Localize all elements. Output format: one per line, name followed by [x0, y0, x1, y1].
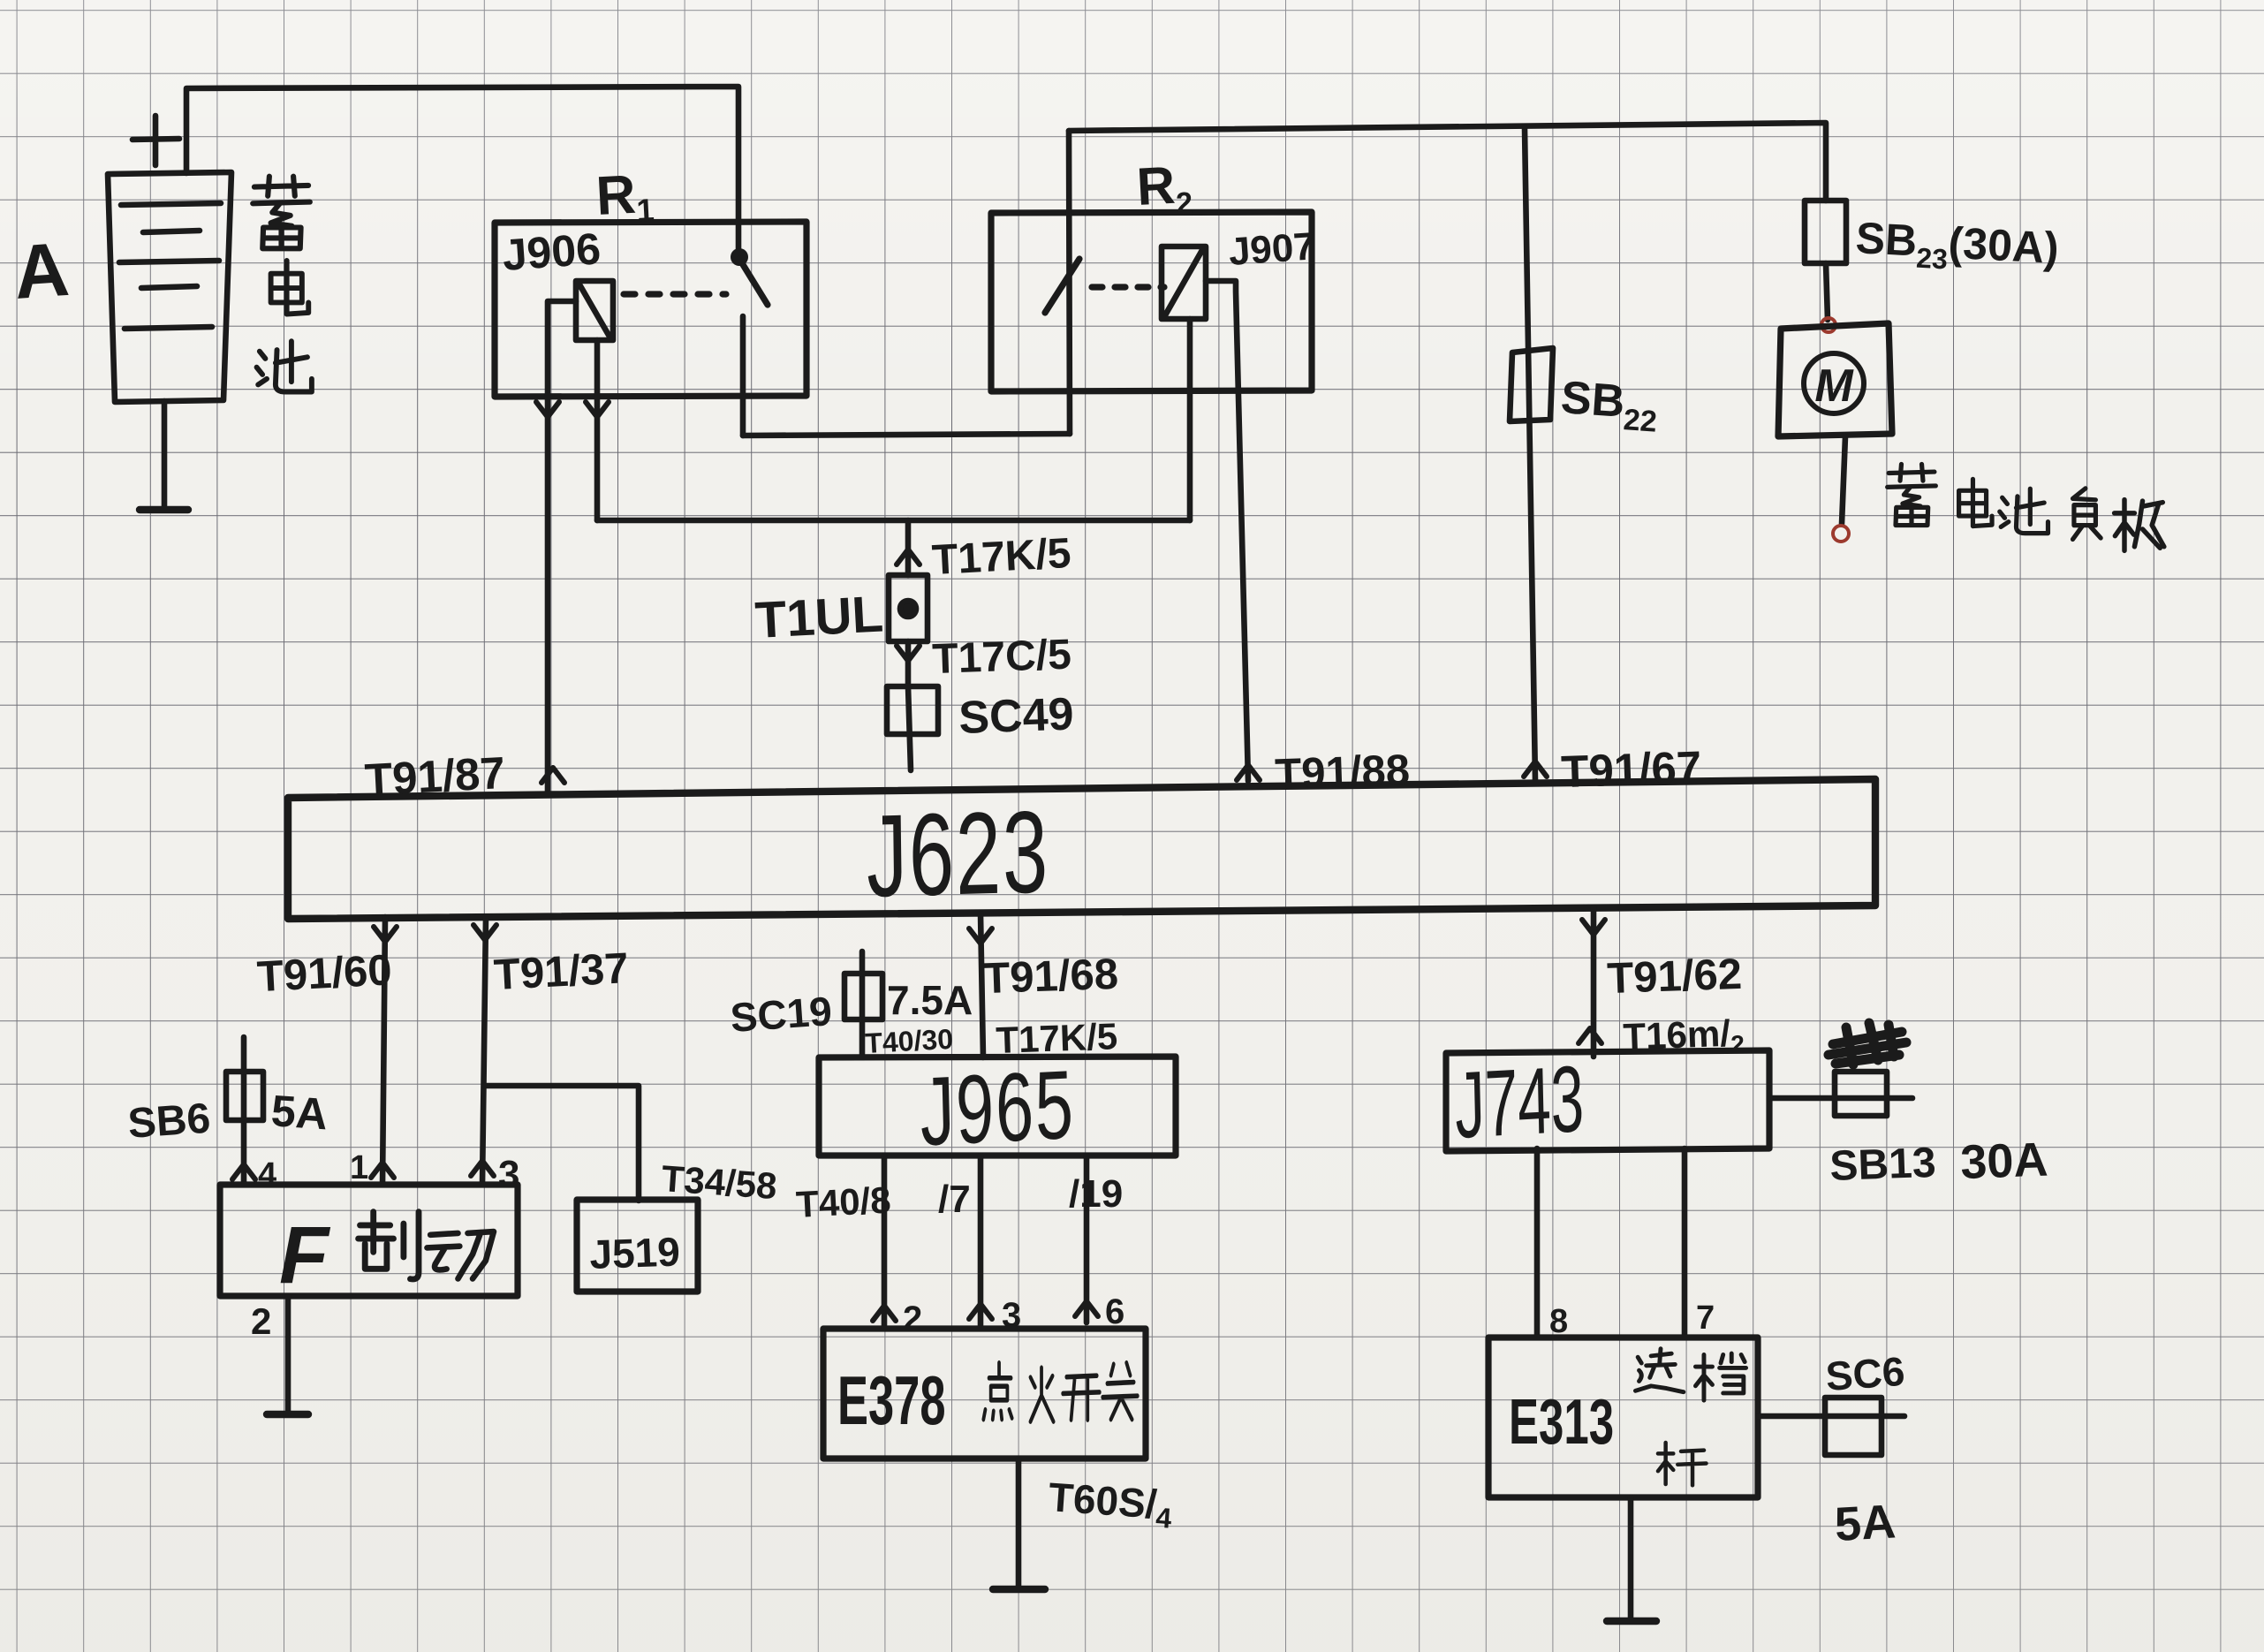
label T91/37: [493, 944, 630, 999]
relay J519 box: [577, 1200, 698, 1292]
svg-text:2: 2: [903, 1300, 922, 1338]
arrow up F pin4: [232, 1164, 255, 1179]
label R2: [1135, 155, 1193, 223]
svg-text:30A: 30A: [1959, 1133, 2048, 1189]
pin label 2 E378: [903, 1300, 922, 1338]
arrow up at T91/88: [1237, 765, 1260, 780]
control unit J743 box: [1446, 1050, 1769, 1151]
wire J965 T40/8 to E378 pin2: [882, 1156, 888, 1327]
label 蓄电池负极 battery negative: [1888, 464, 2164, 550]
label T91/62: [1607, 951, 1743, 1003]
label SC6: [1824, 1348, 1906, 1399]
label F 制动: [279, 1210, 494, 1300]
ground E378: [993, 1586, 1045, 1593]
wire R2 coil bottom to rail: [1187, 319, 1193, 520]
wire J965 /19 to E378 pin6: [1084, 1156, 1090, 1322]
brake switch F box: [220, 1185, 518, 1296]
pin label 1: [350, 1149, 368, 1186]
svg-text:T17K/5: T17K/5: [931, 530, 1072, 584]
label SC49: [958, 688, 1074, 744]
wire R1 coil terminal to J623 T91/87: [548, 301, 576, 794]
label J907: [1227, 224, 1316, 274]
svg-text:T91/87: T91/87: [364, 747, 507, 805]
label /7: [938, 1178, 971, 1221]
label J965: [919, 1050, 1076, 1166]
svg-text:J907: J907: [1227, 224, 1316, 274]
svg-text:T91/60: T91/60: [256, 946, 393, 1001]
svg-text:J965: J965: [919, 1050, 1076, 1166]
wire junction down to T1UL: [905, 520, 912, 575]
label E378 点火开关: [837, 1363, 1138, 1440]
label 5A E313: [1833, 1495, 1897, 1551]
svg-text:7.5A: 7.5A: [887, 977, 973, 1023]
ground E313: [1607, 1618, 1656, 1625]
wire motor to battery negative: [1842, 436, 1845, 524]
arrow down at T17C/5: [897, 646, 920, 661]
wire E378 to ground: [1016, 1459, 1022, 1587]
label /19: [1069, 1172, 1123, 1216]
label SB22: [1558, 372, 1660, 439]
wire J965 /7 to E378 pin3: [978, 1156, 984, 1325]
relay R1 coil-switch dashed link: [624, 291, 726, 297]
battery label 蓄电池 vertical: [253, 177, 312, 392]
arrow up E378 pin3: [969, 1304, 992, 1319]
label R1: [594, 163, 655, 231]
svg-text:SC19: SC19: [729, 988, 833, 1041]
arrow up E378 pin6: [1075, 1301, 1098, 1316]
selector lever E313 box: [1488, 1338, 1758, 1497]
label T16m/2: [1623, 1012, 1745, 1062]
svg-text:SB13: SB13: [1829, 1140, 1937, 1190]
wire R1-R2 switch link: [743, 434, 1070, 436]
arrow up E378 pin2: [873, 1306, 896, 1321]
wire top rail 2: [1069, 123, 1826, 201]
relay R2 coil-switch dashed link: [1092, 284, 1164, 290]
node dot red bottom: [1833, 526, 1849, 542]
pin label 8: [1549, 1303, 1568, 1340]
wire R2 coil right to J623 T91/88: [1206, 281, 1248, 781]
label J743: [1454, 1045, 1585, 1158]
svg-text:/19: /19: [1069, 1172, 1123, 1216]
wire T91/62 to J743: [1591, 907, 1597, 1057]
wire SB6 to F pin4: [241, 1037, 247, 1185]
svg-text:E313: E313: [1509, 1388, 1614, 1459]
ground F: [267, 1411, 308, 1418]
label T91/60: [256, 946, 393, 1001]
ground battery: [140, 506, 188, 513]
relay R2 switch blade: [1045, 259, 1079, 313]
svg-text:J623: J623: [866, 787, 1050, 922]
label SB6: [126, 1095, 212, 1148]
svg-text:/7: /7: [938, 1178, 971, 1221]
label T91/87: [364, 747, 507, 805]
label E313 选档杆: [1509, 1349, 1746, 1486]
arrow up F pin1: [371, 1163, 394, 1178]
arrow down T91/60: [374, 927, 397, 942]
wire R1 switch to common rail: [740, 316, 746, 436]
label 7.5A: [887, 977, 973, 1023]
svg-text:SB6: SB6: [126, 1095, 212, 1148]
wire J743 pin8 to E313: [1534, 1148, 1541, 1338]
svg-text:1: 1: [350, 1149, 368, 1186]
arrow up T16m/2: [1579, 1028, 1601, 1043]
label T40/30: [864, 1023, 953, 1059]
svg-text:T91/68: T91/68: [983, 951, 1119, 1003]
svg-text:T91/37: T91/37: [493, 944, 630, 999]
fuse SC49: [887, 686, 938, 734]
label J519: [589, 1228, 681, 1277]
wire T1UL to SC49: [905, 641, 912, 686]
wire T91/60 to brake switch F pin1: [382, 917, 385, 1185]
arrow up F pin3: [471, 1161, 494, 1176]
wire top rail into R2 switch: [1069, 131, 1070, 434]
svg-text:T91/67: T91/67: [1560, 742, 1702, 798]
label T40/8: [795, 1178, 892, 1225]
arrow down below R1 right: [586, 402, 609, 417]
label J906: [501, 224, 602, 280]
label T91/68: [983, 951, 1119, 1003]
fuse SC6: [1825, 1398, 1882, 1455]
control unit J965 box: [819, 1057, 1176, 1156]
relay R1 switch blade: [739, 259, 768, 305]
fuse SB6: [226, 1072, 263, 1120]
svg-text:M: M: [1814, 360, 1854, 412]
ECU J623 box: [288, 779, 1875, 919]
wire T91/68 to J965: [981, 913, 983, 1057]
wire J743 to SB13: [1769, 1095, 1912, 1102]
svg-text:T40/30: T40/30: [864, 1023, 953, 1059]
arrow down below R1 left: [536, 402, 559, 417]
svg-text:5A: 5A: [1833, 1495, 1897, 1551]
pin label 3: [498, 1153, 519, 1196]
pin label 7: [1696, 1300, 1715, 1337]
arrow up at T17K/5: [897, 549, 920, 565]
arrow up at T91/87: [541, 768, 564, 783]
svg-text:J519: J519: [589, 1228, 681, 1277]
wire F to ground: [285, 1296, 292, 1412]
battery plus terminal: [133, 116, 179, 165]
relay R1 box J906: [495, 222, 806, 397]
label T91/67: [1560, 742, 1702, 798]
wire T91/37 to F pin3: [482, 917, 486, 1185]
label T1UL: [753, 585, 884, 648]
arrow down T91/68: [969, 928, 992, 943]
label 5A: [269, 1086, 329, 1139]
svg-text:7: 7: [1696, 1300, 1715, 1337]
svg-text:T34/58: T34/58: [660, 1157, 778, 1207]
wire below SC49: [908, 686, 911, 770]
svg-text:E378: E378: [837, 1363, 946, 1440]
wire branch to J519: [484, 1086, 639, 1201]
motor letter: [1814, 360, 1854, 412]
fuse SC19: [844, 974, 882, 1019]
svg-text:T91/62: T91/62: [1607, 951, 1743, 1003]
label T17K/5 top: [931, 530, 1072, 584]
fuse SB13: [1835, 1072, 1887, 1116]
wire SC19 to J965: [859, 951, 866, 1057]
label SC19: [729, 988, 833, 1041]
relay R2 coil: [1162, 246, 1206, 319]
connector T1UL: [889, 575, 928, 641]
svg-text:J743: J743: [1454, 1045, 1585, 1158]
motor M starter: [1778, 323, 1892, 436]
pin label 3 E378: [1002, 1296, 1021, 1335]
scribbled out label: [1829, 1023, 1906, 1065]
relay R1 switch contact dot: [731, 248, 748, 266]
arrow down T91/62: [1582, 920, 1605, 935]
pin label 2: [251, 1300, 271, 1342]
svg-text:SC6: SC6: [1824, 1348, 1906, 1399]
label T91/88: [1275, 746, 1411, 799]
wire R1 coil second terminal: [594, 340, 601, 520]
node dot red top: [1821, 318, 1836, 332]
svg-text:A: A: [11, 227, 72, 315]
ignition switch E378 box: [823, 1329, 1146, 1459]
wire J743 pin7 to E313: [1682, 1148, 1688, 1338]
label SB13: [1829, 1140, 1937, 1190]
label T17C/5: [932, 632, 1072, 683]
wire SB22 branch to J623 T91/67: [1525, 128, 1535, 781]
pin label 6 E378: [1105, 1292, 1124, 1331]
battery A (蓄电池): [108, 172, 231, 402]
label T34/58: [660, 1157, 778, 1207]
label SB23 (30A): [1854, 213, 2060, 281]
label T60S/4: [1047, 1474, 1175, 1535]
svg-text:4: 4: [258, 1156, 276, 1194]
wire battery negative to ground: [162, 401, 168, 506]
svg-text:5A: 5A: [269, 1086, 329, 1139]
wire E313 to SC6: [1758, 1413, 1904, 1420]
fuse SB22: [1510, 348, 1553, 421]
pin label 4: [258, 1156, 276, 1194]
wire coil rail R1 to R2: [597, 518, 1190, 524]
svg-text:T17C/5: T17C/5: [932, 632, 1072, 683]
label J623: [866, 787, 1050, 922]
svg-text:T40/8: T40/8: [795, 1178, 892, 1225]
wire SB23 to motor: [1826, 263, 1828, 320]
svg-text:T1UL: T1UL: [753, 585, 884, 648]
svg-text:SC49: SC49: [958, 688, 1074, 744]
label T17K/5 lower: [996, 1015, 1118, 1061]
wire E313 to ground: [1628, 1497, 1634, 1618]
arrow down T91/37: [473, 925, 496, 940]
fuse SB23: [1805, 201, 1846, 263]
svg-text:J906: J906: [501, 224, 602, 280]
svg-text:F: F: [279, 1210, 331, 1300]
label 30A: [1959, 1133, 2048, 1189]
node A label: [11, 227, 72, 315]
svg-text:T91/88: T91/88: [1275, 746, 1411, 799]
arrow up at T91/67: [1524, 762, 1547, 777]
wire battery positive to R1 switch: [186, 87, 738, 258]
svg-text:2: 2: [251, 1300, 271, 1342]
relay R2 box J907: [991, 212, 1312, 391]
relay R1 coil: [576, 281, 613, 340]
